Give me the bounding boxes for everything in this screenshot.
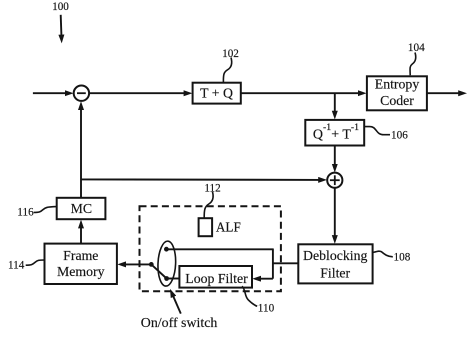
wire: switch common to Frame Memory <box>121 263 151 265</box>
box Deblocking Filter 108 <box>298 244 372 283</box>
leader 110 <box>242 286 257 306</box>
wire: switch bottom contact to Loop Filter <box>167 278 180 280</box>
adder node <box>327 173 342 188</box>
wire: MC branch to adder <box>81 178 323 181</box>
svg-text:110: 110 <box>258 303 275 315</box>
svg-text:104: 104 <box>408 42 425 54</box>
leader 112 <box>204 192 213 218</box>
svg-text:108: 108 <box>394 252 411 264</box>
leader 114 <box>26 260 45 265</box>
svg-text:Loop Filter: Loop Filter <box>185 271 248 286</box>
leader 116 <box>34 207 57 213</box>
wire: inverse quantizer to adder <box>334 146 336 169</box>
switch bottom contact dot <box>164 276 169 281</box>
wire: Deblocking Filter output to junction <box>273 262 299 264</box>
wire: Entropy Coder output <box>427 92 463 94</box>
svg-text:T + Q: T + Q <box>200 86 233 101</box>
leader 106 <box>364 127 390 135</box>
wire: junction vertical <box>272 249 274 278</box>
svg-text:Frame: Frame <box>63 248 98 263</box>
switch top contact dot <box>164 247 169 252</box>
wire: Frame Memory up to MC <box>80 224 82 244</box>
subtractor node <box>74 86 89 101</box>
svg-text:On/off switch: On/off switch <box>141 316 218 331</box>
svg-text:Filter: Filter <box>320 265 350 280</box>
svg-text:114: 114 <box>8 259 25 271</box>
box MC 116 <box>57 198 106 219</box>
dashed loop-filter group box <box>140 206 281 291</box>
svg-text:Memory: Memory <box>57 264 105 279</box>
wire: branch down to inverse quantizer <box>334 93 336 115</box>
svg-text:112: 112 <box>204 183 220 195</box>
box Q-1+T-1 106 <box>305 120 364 146</box>
box ALF 112 <box>199 218 213 236</box>
box Entropy Coder 104 <box>367 76 427 110</box>
svg-text:116: 116 <box>17 206 34 218</box>
leader 102 <box>223 58 231 83</box>
On/off switch pointer arrow <box>172 293 181 314</box>
wire: into Loop Filter <box>256 278 273 280</box>
leader 108 <box>372 251 393 257</box>
wire: adder down to Deblocking Filter <box>334 188 336 240</box>
svg-text:106: 106 <box>391 130 408 142</box>
svg-text:ALF: ALF <box>216 219 241 234</box>
switch common dot <box>149 262 154 267</box>
wire: MC up to subtractor <box>80 105 82 198</box>
svg-text:102: 102 <box>222 48 239 60</box>
svg-text:Deblocking: Deblocking <box>303 248 367 263</box>
box T+Q 102 <box>193 83 241 104</box>
leader 104 <box>410 53 416 76</box>
wire: T+Q to Entropy Coder <box>241 92 363 94</box>
minus sign in subtractor <box>77 92 86 94</box>
svg-text:MC: MC <box>71 201 92 216</box>
switch ellipse <box>157 241 177 287</box>
label 100 arrow <box>60 15 63 40</box>
wire: input line into subtractor <box>33 92 70 94</box>
box Frame Memory 114 <box>45 244 117 284</box>
plus sign in adder <box>330 179 340 181</box>
wire: bypass line to switch top contact <box>166 248 273 250</box>
box Loop Filter 110 <box>179 266 252 288</box>
wire: subtractor to T+Q <box>89 92 188 94</box>
svg-text:100: 100 <box>52 1 69 13</box>
svg-text:Coder: Coder <box>380 93 414 108</box>
wire: switch arm diagonal <box>151 264 166 278</box>
svg-text:Entropy: Entropy <box>375 76 420 91</box>
